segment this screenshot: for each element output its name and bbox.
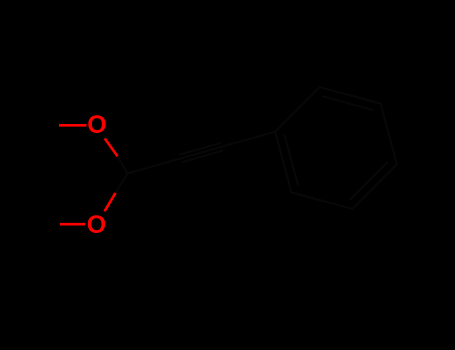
- svg-text:O: O: [87, 111, 106, 139]
- benzene ring outline: [275, 87, 397, 209]
- upper O to acetal C bond: carbon half (near-black): [118, 156, 128, 173]
- aromatic inner bond: left edge: [284, 134, 298, 186]
- lower O to acetal C bond: red half: [105, 193, 116, 211]
- svg-text:O: O: [87, 211, 106, 239]
- lower O to acetal C bond: carbon half (near-black): [116, 174, 128, 193]
- upper methyl C-O bond (red): [59, 124, 87, 127]
- alkyne triple bond: lower parallel: [182, 151, 223, 163]
- upper O to acetal C bond: red half: [105, 138, 118, 156]
- aromatic inner bond: top edge: [322, 96, 374, 110]
- aromatic inner bond: bottom-right edge: [350, 162, 388, 200]
- acetal C to alkyne bond: [128, 160, 177, 174]
- alkyne triple bond: upper parallel: [180, 143, 221, 155]
- lower methyl C-O bond (red): [60, 223, 85, 226]
- alkyne triple bond: center line: [177, 146, 226, 160]
- alkyne to ring bond: [226, 132, 275, 146]
